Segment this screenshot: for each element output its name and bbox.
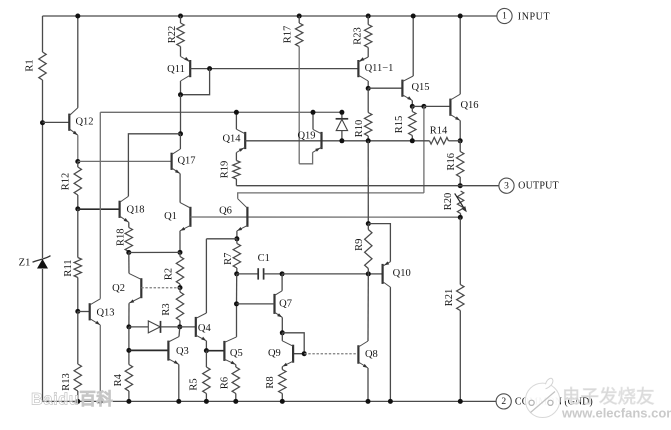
wire R18-bottom to Q1 emitter bbox=[129, 251, 180, 253]
wire R12 bottom to R11 bbox=[77, 209, 79, 258]
svg-text:Q18: Q18 bbox=[126, 205, 144, 216]
svg-text:Q5: Q5 bbox=[230, 348, 243, 359]
svg-text:R15: R15 bbox=[394, 116, 405, 134]
capacitor C1 bbox=[237, 273, 259, 275]
wire Q13 base bbox=[78, 311, 90, 313]
wire Q13 collector column up to y=112 bus bbox=[99, 112, 101, 298]
resistor R15 bbox=[411, 106, 413, 111]
resistor R2 bbox=[179, 252, 181, 256]
junction GND rail x=178.8 bbox=[176, 399, 181, 404]
transistor Q6 bbox=[246, 207, 248, 227]
junction y=112 bus x=236.4 bbox=[234, 110, 239, 115]
transistor Q12 bbox=[68, 114, 70, 131]
wire Q4 emitter down bbox=[205, 341, 207, 351]
svg-text:R20: R20 bbox=[443, 193, 454, 211]
node Q6 emitter / R7 top junction bbox=[234, 236, 239, 241]
wire y=112 bus (Q13 collector to mirror) bbox=[100, 111, 342, 113]
junction GND rail x=77.8 bbox=[75, 399, 80, 404]
wire Q17 collector up bbox=[179, 134, 181, 149]
svg-text:R23: R23 bbox=[352, 27, 363, 45]
resistor R19 bbox=[235, 153, 237, 161]
node R2 bottom / Q2 base junction bbox=[178, 285, 183, 290]
wire Q12 emitter down bbox=[77, 135, 79, 161]
node D1 top junction bbox=[339, 110, 344, 115]
node D1 bottom junction bbox=[339, 138, 344, 143]
wire bottom GND rail bbox=[43, 400, 497, 402]
transistor Q3 bbox=[167, 341, 169, 361]
svg-text:Baidu百科: Baidu百科 bbox=[31, 389, 113, 409]
wire Q11 collector loop bbox=[180, 81, 182, 95]
svg-text:www.elecfans.com: www.elecfans.com bbox=[561, 406, 671, 421]
wire Q6-emitter node to Q4 collector column bbox=[206, 238, 237, 240]
diode D2 bbox=[129, 326, 148, 328]
terminal 2 COMMON (GND) bbox=[496, 394, 511, 409]
wire Q2 collector up to R18 bottom bbox=[128, 253, 130, 274]
resistor R12 bbox=[77, 162, 79, 168]
svg-text:R1: R1 bbox=[25, 59, 36, 71]
node Q4 emitter / Q5 base junction bbox=[204, 348, 209, 353]
junction top rail x=413.2 bbox=[411, 14, 416, 19]
junction GND rail x=282.3 bbox=[280, 399, 285, 404]
svg-text:R10: R10 bbox=[354, 120, 365, 138]
resistor R18 bbox=[128, 222, 130, 227]
svg-text:Q6: Q6 bbox=[219, 206, 232, 217]
junction GND rail x=235.8 bbox=[233, 399, 238, 404]
junction top rail x=77.8 bbox=[75, 14, 80, 19]
transistor Q1 bbox=[189, 207, 191, 227]
wire Q16 emitter down bbox=[459, 121, 461, 141]
transistor Q5 bbox=[223, 341, 225, 361]
node Q12 base junction bbox=[40, 120, 45, 125]
resistor R20 (variable) bbox=[457, 191, 463, 214]
wire Q15 emitter junctions bbox=[411, 101, 413, 107]
resistor R22 bbox=[180, 16, 182, 23]
transistor Q17 bbox=[171, 153, 173, 170]
transistor Q11 bbox=[189, 60, 191, 77]
svg-text:Q4: Q4 bbox=[198, 323, 212, 334]
resistor R4 bbox=[125, 365, 132, 392]
resistor R9 bbox=[367, 224, 369, 230]
wire Q3 collector up bbox=[178, 327, 181, 337]
junction GND rail x=100.3 bbox=[98, 399, 103, 404]
svg-text:Q12: Q12 bbox=[75, 117, 93, 128]
resistor R7 bbox=[236, 239, 238, 244]
junction top rail x=299.2 bbox=[297, 14, 302, 19]
resistor R17 bbox=[298, 16, 300, 23]
wire Q5 collector up to Q7 base column bbox=[236, 304, 238, 337]
svg-text:Q17: Q17 bbox=[177, 156, 195, 167]
node R20 bottom / R21 top junction bbox=[458, 215, 463, 220]
node Q17 collector / Q18 collector junction bbox=[178, 131, 183, 136]
svg-text:R16: R16 bbox=[446, 153, 457, 171]
wire D2-left down to R4 bbox=[128, 327, 130, 365]
transistor Q11-1 bbox=[357, 60, 359, 77]
wire D2 to Q4 base bbox=[180, 326, 196, 328]
node Q11-1 collector / R10 / Q15 base junction bbox=[366, 86, 371, 91]
wire Q10 emitter feed bbox=[368, 224, 390, 262]
svg-text:电子发烧友: 电子发烧友 bbox=[562, 386, 655, 407]
wire Q9-base to Q8 base bbox=[304, 353, 358, 355]
transistor Q13 bbox=[89, 303, 91, 320]
node R9 bottom / Q10 base junction bbox=[366, 271, 371, 276]
node R10 bottom junction bbox=[366, 138, 371, 143]
svg-text:INPUT: INPUT bbox=[518, 11, 550, 22]
svg-text:R5: R5 bbox=[189, 378, 200, 390]
svg-text:R14: R14 bbox=[430, 126, 448, 137]
wire Q11 base to Q11-1 base bbox=[190, 68, 358, 70]
node Q3 base junction bbox=[126, 348, 131, 353]
svg-text:Q16: Q16 bbox=[460, 100, 478, 111]
wire Q10 collector to GND rail bbox=[389, 287, 391, 401]
svg-text:R2: R2 bbox=[164, 268, 175, 280]
resistor R5 bbox=[205, 351, 207, 367]
transistor Q8 bbox=[357, 345, 359, 364]
node C1 right / Q7 collector junction bbox=[280, 271, 285, 276]
junction GND rail x=390.4 bbox=[388, 399, 393, 404]
svg-text:R21: R21 bbox=[444, 289, 455, 307]
svg-text:R7: R7 bbox=[223, 253, 234, 265]
wire Q16-base node down to Q6 collector bus bbox=[423, 106, 425, 192]
node OUTPUT junction bbox=[458, 183, 463, 188]
svg-text:R17: R17 bbox=[283, 26, 294, 44]
wire OUTPUT bus y=185.7 bbox=[236, 185, 499, 187]
svg-text:C1: C1 bbox=[258, 253, 270, 264]
wire Q7 base bbox=[237, 303, 275, 305]
wire base bus y=140.8 (Q14/Q19 bases to R14) bbox=[245, 140, 429, 142]
transistor Q18 bbox=[118, 201, 120, 218]
node Q16 base junction bbox=[421, 104, 426, 109]
junction GND rail x=460.3 bbox=[458, 399, 463, 404]
node R3 bottom / D2 / Q3 collector junction bbox=[177, 324, 182, 329]
svg-text:Q9: Q9 bbox=[268, 348, 281, 359]
svg-text:Q8: Q8 bbox=[365, 349, 378, 360]
transistor Q9 bbox=[292, 345, 294, 363]
wire Q18 collector link bbox=[128, 134, 180, 197]
wire Q2 emitter down bbox=[128, 303, 130, 327]
transistor Q7 bbox=[273, 294, 275, 314]
node R15 bottom junction bbox=[410, 138, 415, 143]
node Q16 emitter / R14 / R16 junction bbox=[458, 138, 463, 143]
junction GND rail x=368 bbox=[366, 399, 371, 404]
wire Q11-1 collector to node bbox=[367, 81, 369, 88]
svg-text:Q11: Q11 bbox=[167, 64, 185, 75]
svg-text:Q13: Q13 bbox=[96, 308, 114, 319]
wire Q2 base bbox=[141, 287, 180, 289]
wire Q12-emitter to Q17 base bbox=[78, 160, 172, 162]
wire base bus y=217 (Q1/Q6 bases to R20 bottom) bbox=[190, 216, 460, 218]
svg-text:R11: R11 bbox=[63, 259, 74, 276]
svg-text:OUTPUT: OUTPUT bbox=[518, 181, 559, 192]
node Q11 collector junction bbox=[178, 92, 183, 97]
junction GND rail x=128.9 bbox=[126, 399, 131, 404]
node R7 bottom / C1 left junction bbox=[234, 271, 239, 276]
wire Q3 base (thick) bbox=[129, 349, 169, 351]
resistor R10 bbox=[367, 88, 369, 112]
wire Q7 emitter down to Q9 node bbox=[281, 317, 283, 332]
wire R12-bottom to Q18 base bbox=[78, 208, 120, 210]
svg-text:1: 1 bbox=[502, 12, 507, 22]
resistor R14 bbox=[430, 138, 449, 145]
terminal 1 INPUT bbox=[497, 8, 512, 23]
wire Q8 emitter to GND rail bbox=[367, 368, 369, 401]
svg-text:R22: R22 bbox=[167, 26, 178, 44]
wire R17 bottom down to Q19 emitter loop bbox=[298, 47, 300, 164]
node Q1 emitter / R2 junction bbox=[178, 250, 183, 255]
transistor Q4 bbox=[195, 317, 197, 337]
wire Q15 collector to top rail bbox=[412, 16, 414, 76]
resistor R13 bbox=[77, 311, 79, 364]
transistor Q19 bbox=[320, 132, 322, 149]
transistor Q2 bbox=[140, 278, 142, 298]
svg-text:Q19: Q19 bbox=[297, 131, 315, 142]
node R12 bottom / Q18 base junction bbox=[75, 206, 80, 211]
wire Q9 base loop bbox=[282, 333, 304, 354]
wire Q12 base bbox=[43, 121, 70, 123]
resistor R3 bbox=[179, 288, 181, 292]
resistor R1 bbox=[39, 52, 46, 80]
resistor R23 bbox=[367, 16, 369, 25]
wire Q6 emitter down bbox=[236, 231, 238, 239]
wire Q13 emitter to GND rail bbox=[99, 325, 101, 401]
resistor R16 bbox=[459, 141, 461, 152]
wire Q1 emitter down bbox=[179, 231, 181, 253]
svg-text:R4: R4 bbox=[113, 373, 124, 386]
node Q11 base-collector tie bbox=[207, 66, 212, 71]
svg-text:R12: R12 bbox=[61, 173, 72, 191]
resistor R6 bbox=[235, 365, 237, 367]
svg-text:R18: R18 bbox=[116, 228, 127, 246]
node Q9 collector-base junction bbox=[280, 330, 285, 335]
resistor R11 bbox=[74, 258, 81, 278]
resistor R8 bbox=[281, 367, 283, 370]
wire Q9 collector up bbox=[281, 333, 283, 341]
transistor Q16 bbox=[449, 99, 451, 116]
wire Q5 base (thick) bbox=[206, 350, 224, 352]
svg-text:Q2: Q2 bbox=[112, 283, 125, 294]
wire Q19 collector to y=112 bus bbox=[312, 112, 314, 129]
node Q9 base / Q8 base junction bbox=[302, 351, 307, 356]
wire Q6 collector to y=193 bus bbox=[238, 193, 424, 199]
node Q12 emitter / R12 top junction bbox=[75, 159, 80, 164]
transistor Q14 bbox=[244, 132, 246, 149]
node Q7 base junction bbox=[234, 301, 239, 306]
terminal 3 OUTPUT bbox=[499, 178, 514, 193]
svg-text:R9: R9 bbox=[354, 239, 365, 251]
svg-text:2: 2 bbox=[501, 397, 506, 407]
transistor Q10 bbox=[382, 264, 384, 284]
diode D1 bbox=[341, 112, 343, 119]
node R18 bottom / Q2 collector junction bbox=[126, 250, 131, 255]
wire top V-in rail bbox=[43, 15, 498, 17]
wire Q3 emitter to GND rail bbox=[178, 364, 180, 401]
junction top rail x=460.2 bbox=[458, 14, 463, 19]
svg-text:Q3: Q3 bbox=[176, 346, 189, 357]
wire Q12 collector to top rail bbox=[77, 16, 79, 108]
wire Q11 collector down to Q17/Q18 node bbox=[180, 95, 182, 134]
wire mid column x=368 (R10 bottom to R9 top) bbox=[367, 141, 369, 224]
svg-text:Q11−1: Q11−1 bbox=[365, 63, 394, 74]
junction GND rail x=206.4 bbox=[204, 399, 209, 404]
zener Z1 bbox=[33, 256, 51, 263]
wire Q7 collector up to C1 node bbox=[281, 274, 283, 291]
svg-text:R19: R19 bbox=[220, 161, 231, 179]
wire left column (R1/Z1 branch) bbox=[42, 16, 44, 52]
wire C1 row to Q10 base bbox=[282, 273, 368, 275]
svg-text:R3: R3 bbox=[161, 303, 172, 315]
junction top rail x=368.2 bbox=[366, 14, 371, 19]
svg-text:Q14: Q14 bbox=[222, 134, 241, 145]
svg-text:Q7: Q7 bbox=[279, 299, 292, 310]
watermark Baike circle logo bbox=[525, 383, 559, 417]
svg-text:Z1: Z1 bbox=[19, 258, 31, 269]
node R9 top / Q10 emitter junction bbox=[366, 221, 371, 226]
svg-text:Q1: Q1 bbox=[164, 211, 177, 222]
transistor Q15 bbox=[401, 80, 403, 97]
svg-text:R13: R13 bbox=[61, 373, 72, 391]
wire Q8 collector up to Q10-base node bbox=[367, 274, 369, 341]
wire R7-bottom node down to Q7 base node bbox=[236, 274, 238, 304]
wire Q17 emitter to Q1 collector bbox=[179, 174, 181, 203]
wire Q4 collector up to Q6-emitter node bbox=[205, 239, 207, 313]
wire Q14 collector up to y=112 bus bbox=[235, 112, 237, 129]
node D2 left junction bbox=[126, 324, 131, 329]
wire Q16 collector to top rail bbox=[459, 16, 461, 94]
wire node to Q15 base bbox=[368, 87, 402, 89]
junction y=112 bus x=313 bbox=[311, 110, 316, 115]
svg-text:Q10: Q10 bbox=[393, 268, 411, 279]
resistor R21 bbox=[459, 217, 461, 284]
junction top rail x=180.5 bbox=[178, 14, 183, 19]
svg-text:3: 3 bbox=[504, 181, 509, 191]
svg-text:R6: R6 bbox=[220, 377, 231, 389]
node R11 bottom / Q13 base junction bbox=[75, 309, 80, 314]
svg-text:R8: R8 bbox=[265, 376, 276, 388]
svg-text:Q15: Q15 bbox=[411, 82, 429, 93]
